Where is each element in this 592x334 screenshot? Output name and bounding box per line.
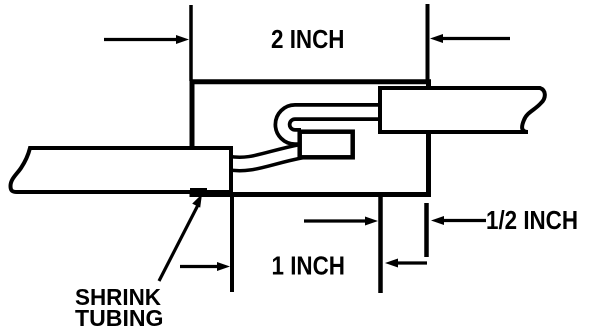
svg-text:1/2 INCH: 1/2 INCH	[486, 205, 578, 235]
svg-text:1 INCH: 1 INCH	[272, 250, 346, 280]
svg-text:2 INCH: 2 INCH	[271, 24, 345, 54]
svg-text:TUBING: TUBING	[75, 305, 164, 331]
